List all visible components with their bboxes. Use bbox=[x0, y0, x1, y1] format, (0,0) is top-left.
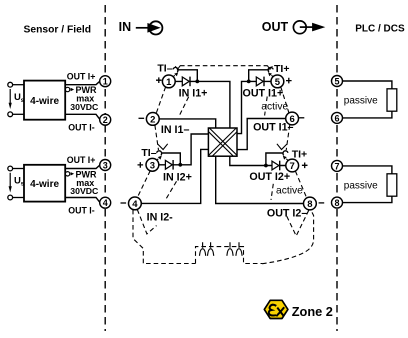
svg-text:OUT I-: OUT I- bbox=[68, 206, 94, 216]
wire: transformer to OUT I1+ diode bbox=[237, 81, 271, 133]
module outline dashed 3-4 bbox=[137, 171, 150, 198]
svg-text:4: 4 bbox=[103, 198, 108, 208]
terminal 5 (module) bbox=[271, 75, 284, 88]
resistor load 2 bbox=[387, 174, 397, 196]
svg-text:IN I1–: IN I1– bbox=[161, 124, 190, 136]
wire: terminal 3 to diode and to transformer bbox=[159, 134, 209, 165]
svg-text:2: 2 bbox=[103, 115, 108, 125]
terminal 3 (field column) bbox=[100, 160, 111, 209]
module terminal circles 1-8 bbox=[129, 75, 317, 210]
terminal 1 (field column) bbox=[100, 76, 111, 126]
minus at terminal 6 bbox=[299, 117, 305, 119]
wire: terminal 1 to diode and to transformer bbox=[141, 70, 303, 204]
svg-text:Zone 2: Zone 2 bbox=[292, 304, 333, 319]
svg-text:Sensor / Field: Sensor / Field bbox=[24, 24, 92, 35]
wire: terminal 4 to transformer bbox=[141, 149, 208, 203]
TI+ lever arrow ch1 bbox=[272, 75, 274, 78]
passive load 2 wiring bbox=[343, 166, 397, 203]
bus contact fork 3 bbox=[227, 242, 233, 256]
IN header icon bbox=[119, 20, 163, 35]
wire: transformer to OUT I2+ diode bbox=[230, 156, 286, 165]
svg-text:TI+: TI+ bbox=[274, 63, 289, 75]
TI+ lever arrow ch2 bbox=[286, 159, 288, 162]
sensor 2: 4-wire transmitter box bbox=[24, 165, 65, 202]
svg-text:passive: passive bbox=[344, 181, 378, 192]
svg-text:7: 7 bbox=[290, 161, 295, 172]
svg-text:OUT: OUT bbox=[262, 20, 289, 34]
svg-text:1: 1 bbox=[166, 77, 172, 88]
module outline dashed bottom right curve to terminal 8 bbox=[262, 210, 314, 264]
V notch at TI hook ch2 left bbox=[158, 144, 168, 150]
leader dashed at active ch1 bbox=[265, 97, 268, 116]
resistor load 1 bbox=[387, 89, 397, 111]
plus at terminal 7 bbox=[302, 163, 308, 169]
bus contact fork 4 bbox=[236, 242, 242, 256]
plus at terminal 3 bbox=[138, 162, 144, 168]
svg-text:IN I2-: IN I2- bbox=[147, 212, 174, 224]
V notch above TI hook ch1 left bbox=[175, 66, 180, 70]
svg-text:5: 5 bbox=[334, 76, 339, 86]
TI+ hook ch1 bbox=[268, 67, 273, 72]
TI- hook ch2 bbox=[157, 151, 162, 156]
module outline dashed bottom left bbox=[133, 210, 196, 264]
T-BUS fork contacts bbox=[200, 242, 243, 256]
module outline top dashed edge bbox=[133, 66, 314, 264]
OUT header icon bbox=[262, 20, 326, 34]
svg-text:6: 6 bbox=[334, 113, 339, 123]
sensor 1 Us voltage arrow bbox=[9, 89, 11, 106]
junction node ch1 out bbox=[247, 80, 251, 84]
module outline dashed 1-2 bbox=[156, 87, 166, 114]
svg-text:5: 5 bbox=[275, 77, 281, 88]
svg-text:30VDC: 30VDC bbox=[70, 102, 99, 112]
sensor 2 left terminals and wires bbox=[8, 166, 24, 200]
svg-text:8: 8 bbox=[307, 199, 312, 210]
module outline dashed 7-8 bbox=[295, 171, 306, 198]
separator dashed line left (Sensor/Field | module) bbox=[104, 5, 106, 331]
wire: TI+ test tap ch1 bbox=[249, 70, 270, 82]
terminal 5 (PLC column) bbox=[332, 76, 343, 124]
module outline dashed 2-3 bbox=[155, 125, 159, 150]
terminal 7 (module) bbox=[286, 159, 299, 172]
diode IN I1+ bbox=[182, 77, 190, 87]
bus contact fork 1 bbox=[200, 242, 206, 256]
bus contact fork 2 bbox=[208, 242, 214, 256]
svg-text:OUT I1–: OUT I1– bbox=[253, 122, 293, 134]
minus at terminal 2 bbox=[139, 117, 145, 119]
terminal 2 (module) bbox=[146, 113, 159, 126]
module outline dashed bottom plateau bbox=[196, 247, 263, 264]
wire: transformer to terminal 8 bbox=[216, 156, 304, 203]
svg-text:TI–: TI– bbox=[157, 62, 172, 74]
svg-text:3: 3 bbox=[150, 160, 155, 171]
sensor 2 Us voltage arrow bbox=[9, 173, 11, 189]
terminal 3 (module) bbox=[146, 158, 159, 171]
sensor 1 PWR tap bbox=[65, 87, 69, 91]
sensor 1 wire OUT I- to terminal 2 bbox=[65, 114, 100, 119]
TI- lever arrow ch2 bbox=[156, 159, 158, 162]
svg-text:4-wire: 4-wire bbox=[30, 96, 59, 107]
wire: TI+ test tap ch2 bbox=[266, 153, 284, 166]
svg-text:s: s bbox=[21, 180, 25, 187]
svg-text:7: 7 bbox=[334, 161, 339, 171]
svg-text:30VDC: 30VDC bbox=[70, 186, 99, 196]
diode OUT I2+ bbox=[272, 161, 280, 171]
wire: transformer to terminal 6 bbox=[237, 119, 286, 150]
svg-text:8: 8 bbox=[334, 198, 339, 208]
sensor 2 PWR tap bbox=[65, 172, 69, 176]
svg-text:OUT I2–: OUT I2– bbox=[267, 208, 307, 220]
separator dashed line right (module | PLC/DCS) bbox=[336, 5, 338, 331]
passive load 1 wiring bbox=[343, 81, 397, 118]
junction node ch1 in bbox=[195, 80, 199, 84]
svg-text:OUT I2+: OUT I2+ bbox=[249, 171, 290, 183]
sensor 1 wire OUT I+ to terminal 1 bbox=[65, 81, 100, 120]
minus at terminal 4 bbox=[121, 202, 127, 204]
plus at terminal 5 bbox=[286, 78, 292, 84]
terminal 7 (PLC column) bbox=[332, 160, 343, 208]
svg-text:OUT I+: OUT I+ bbox=[67, 155, 96, 165]
V notch at TI hook ch2 right bbox=[277, 144, 287, 150]
svg-text:IN I1+: IN I1+ bbox=[179, 87, 208, 99]
minus at terminal 8 bbox=[319, 202, 325, 204]
svg-text:4: 4 bbox=[132, 199, 138, 210]
module outline dashed 6-7 bbox=[286, 125, 290, 150]
diode OUT I1+ bbox=[256, 77, 264, 87]
TI+ hook ch2 bbox=[283, 151, 288, 156]
junction node ch2 in bbox=[178, 163, 182, 167]
TI- lever arrow ch1 bbox=[172, 75, 174, 78]
leader dashed at IN I2 bbox=[165, 181, 177, 201]
svg-text:OUT I+: OUT I+ bbox=[67, 71, 96, 81]
plus at terminal 1 bbox=[156, 77, 162, 83]
module outline dashed 5-6 bbox=[281, 87, 289, 113]
polarity signs at module terminals bbox=[121, 77, 325, 203]
svg-text:1: 1 bbox=[103, 77, 108, 87]
svg-text:IN: IN bbox=[119, 20, 132, 34]
wire: terminal 2 to transformer bbox=[159, 119, 216, 128]
V notch above TI hook ch1 right bbox=[267, 66, 272, 70]
leader dashed at IN I1 bbox=[179, 97, 189, 117]
diode IN I2+ bbox=[165, 160, 173, 170]
svg-text:s: s bbox=[21, 97, 25, 104]
svg-text:TI–: TI– bbox=[141, 147, 156, 159]
leader dashed at active ch2 bbox=[271, 184, 273, 200]
transformer / isolation barrier U1 bbox=[208, 128, 237, 156]
svg-text:4-wire: 4-wire bbox=[30, 179, 59, 190]
terminal 1 (module) bbox=[162, 75, 175, 88]
wire: TI- test tap ch2 bbox=[161, 153, 180, 165]
sensor 1: 4-wire transmitter box bbox=[24, 81, 65, 120]
sensor 2 wire OUT I- to terminal 4 bbox=[65, 198, 100, 203]
svg-text:IN I2+: IN I2+ bbox=[163, 172, 192, 184]
svg-text:OUT I1+: OUT I1+ bbox=[243, 87, 284, 99]
svg-text:active: active bbox=[276, 185, 303, 196]
svg-text:2: 2 bbox=[150, 114, 155, 125]
svg-text:PLC / DCS: PLC / DCS bbox=[355, 24, 405, 35]
junction node ch2 out bbox=[264, 164, 268, 168]
svg-text:3: 3 bbox=[103, 160, 108, 170]
sensor 1 left terminals and wires bbox=[8, 82, 24, 116]
terminal 4 (module) bbox=[129, 197, 142, 210]
terminal 8 (module) bbox=[304, 197, 317, 210]
TI- hook ch1 bbox=[173, 67, 178, 72]
wire: TI- test tap ch1 bbox=[177, 70, 197, 82]
module outline dashed V notch at terminal 8 bbox=[287, 210, 309, 236]
svg-text:OUT I-: OUT I- bbox=[68, 123, 94, 133]
module outline dashed V notch at terminal 4 bbox=[137, 210, 156, 234]
Ex hexagon logo bbox=[264, 300, 288, 318]
svg-text:active: active bbox=[261, 102, 288, 113]
terminal 6 (module) bbox=[286, 112, 299, 125]
svg-text:passive: passive bbox=[344, 96, 378, 107]
sensor 2 wire OUT I+ to terminal 3 bbox=[65, 165, 100, 203]
